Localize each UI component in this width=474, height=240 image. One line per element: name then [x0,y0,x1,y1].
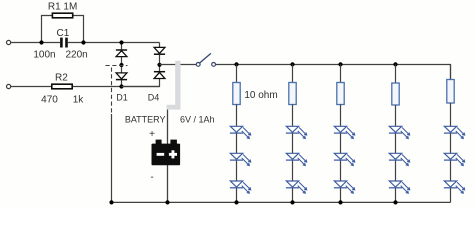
resistor R2 [52,84,72,89]
node LED rail col4 [393,62,397,66]
LED col4 row1 [389,126,410,138]
diode D4 lower-right [154,72,165,79]
node LED rail col3 [338,62,342,66]
node bottom-left corner [109,200,113,204]
svg-text:+: + [149,129,155,140]
diode D3 upper-right [154,47,165,54]
wire bridge right column [122,43,160,87]
resistor 10ohm col2 [289,83,296,105]
LED col1 row3 [230,181,251,193]
node col4 bottom [393,200,397,204]
wire bridge left column [121,43,123,87]
wire col2 led string [292,105,294,203]
LED col2 row2 [286,153,307,165]
node col3 bottom [338,200,342,204]
node bridge top-left [119,40,123,44]
node col2 bottom [290,200,294,204]
wire col5 top lead [450,65,452,76]
svg-text:470: 470 [41,95,58,106]
resistor 10ohm col1 [233,83,240,105]
svg-text:1k: 1k [73,95,85,106]
resistor 10ohm col3 [337,83,344,105]
diode D1 upper-left [116,50,127,57]
wire battery vertical [167,110,169,203]
node LED rail col1 [234,62,238,66]
switch S1 [196,53,215,66]
node bridge mid-left [119,63,123,67]
wire bottom input to bridge [11,86,160,88]
svg-text:D4: D4 [148,93,160,103]
svg-text:C1: C1 [57,28,70,39]
dashed isolation line horizontal [106,65,128,67]
wire col4 led string [395,105,397,202]
terminal input top [7,40,11,44]
diode D2 lower-left [116,73,127,80]
wire col3 top lead [340,65,342,76]
node bridge bottom-left [119,84,123,88]
dashed isolation line vertical [111,68,113,115]
LED col4 row2 [389,153,410,165]
svg-text:100n: 100n [33,50,55,61]
node bridge mid-right [157,63,161,67]
LED col4 row3 [389,181,410,193]
node col1 bottom [234,200,238,204]
capacitor C1 [60,38,68,48]
LED col2 row1 [286,126,307,138]
resistor 10ohm col5 [447,80,454,104]
LED col3 row2 [334,153,355,165]
svg-text:220n: 220n [65,50,87,61]
wire col2 top lead [292,65,294,76]
resistor 10ohm col4 [392,83,399,105]
wire col5 led string [450,103,452,202]
wire col3 led string [340,105,342,203]
LED col3 row1 [334,126,355,138]
LED col5 row3 [444,181,465,193]
wire bridge output to switch [160,64,197,66]
resistor R1 [52,13,72,18]
svg-text:R1 1M: R1 1M [48,1,77,12]
wire switch to LED rail [216,65,451,80]
node LED rail col2 [290,62,294,66]
svg-text:10 ohm: 10 ohm [244,90,277,101]
node battery bottom rail [165,200,169,204]
LED col1 row1 [230,126,251,138]
wire negative rail vertical [111,114,113,202]
wire top input to bridge [11,42,160,44]
battery BT1 [152,140,181,166]
LED col1 row2 [230,153,251,165]
wire R1 parallel branch [42,16,84,43]
wire col1 top lead [236,65,238,76]
wire bottom rail [112,201,451,203]
terminal input bottom [7,84,11,88]
LED col2 row3 [286,181,307,193]
svg-text:D1: D1 [116,93,128,103]
svg-text:BATTERY: BATTERY [125,114,166,124]
node R1 left junction [39,40,43,44]
svg-text:R2: R2 [55,72,68,83]
svg-text:6V / 1Ah: 6V / 1Ah [180,114,215,124]
wire col1 led string [236,105,238,203]
svg-text:-: - [150,172,153,183]
LED col3 row3 [334,181,355,193]
LED col5 row2 [444,153,465,165]
highlighted battery wire (grey) [167,61,181,110]
wire col4 top lead [395,65,397,76]
LED col5 row1 [444,126,465,138]
node R1 right junction [81,40,85,44]
